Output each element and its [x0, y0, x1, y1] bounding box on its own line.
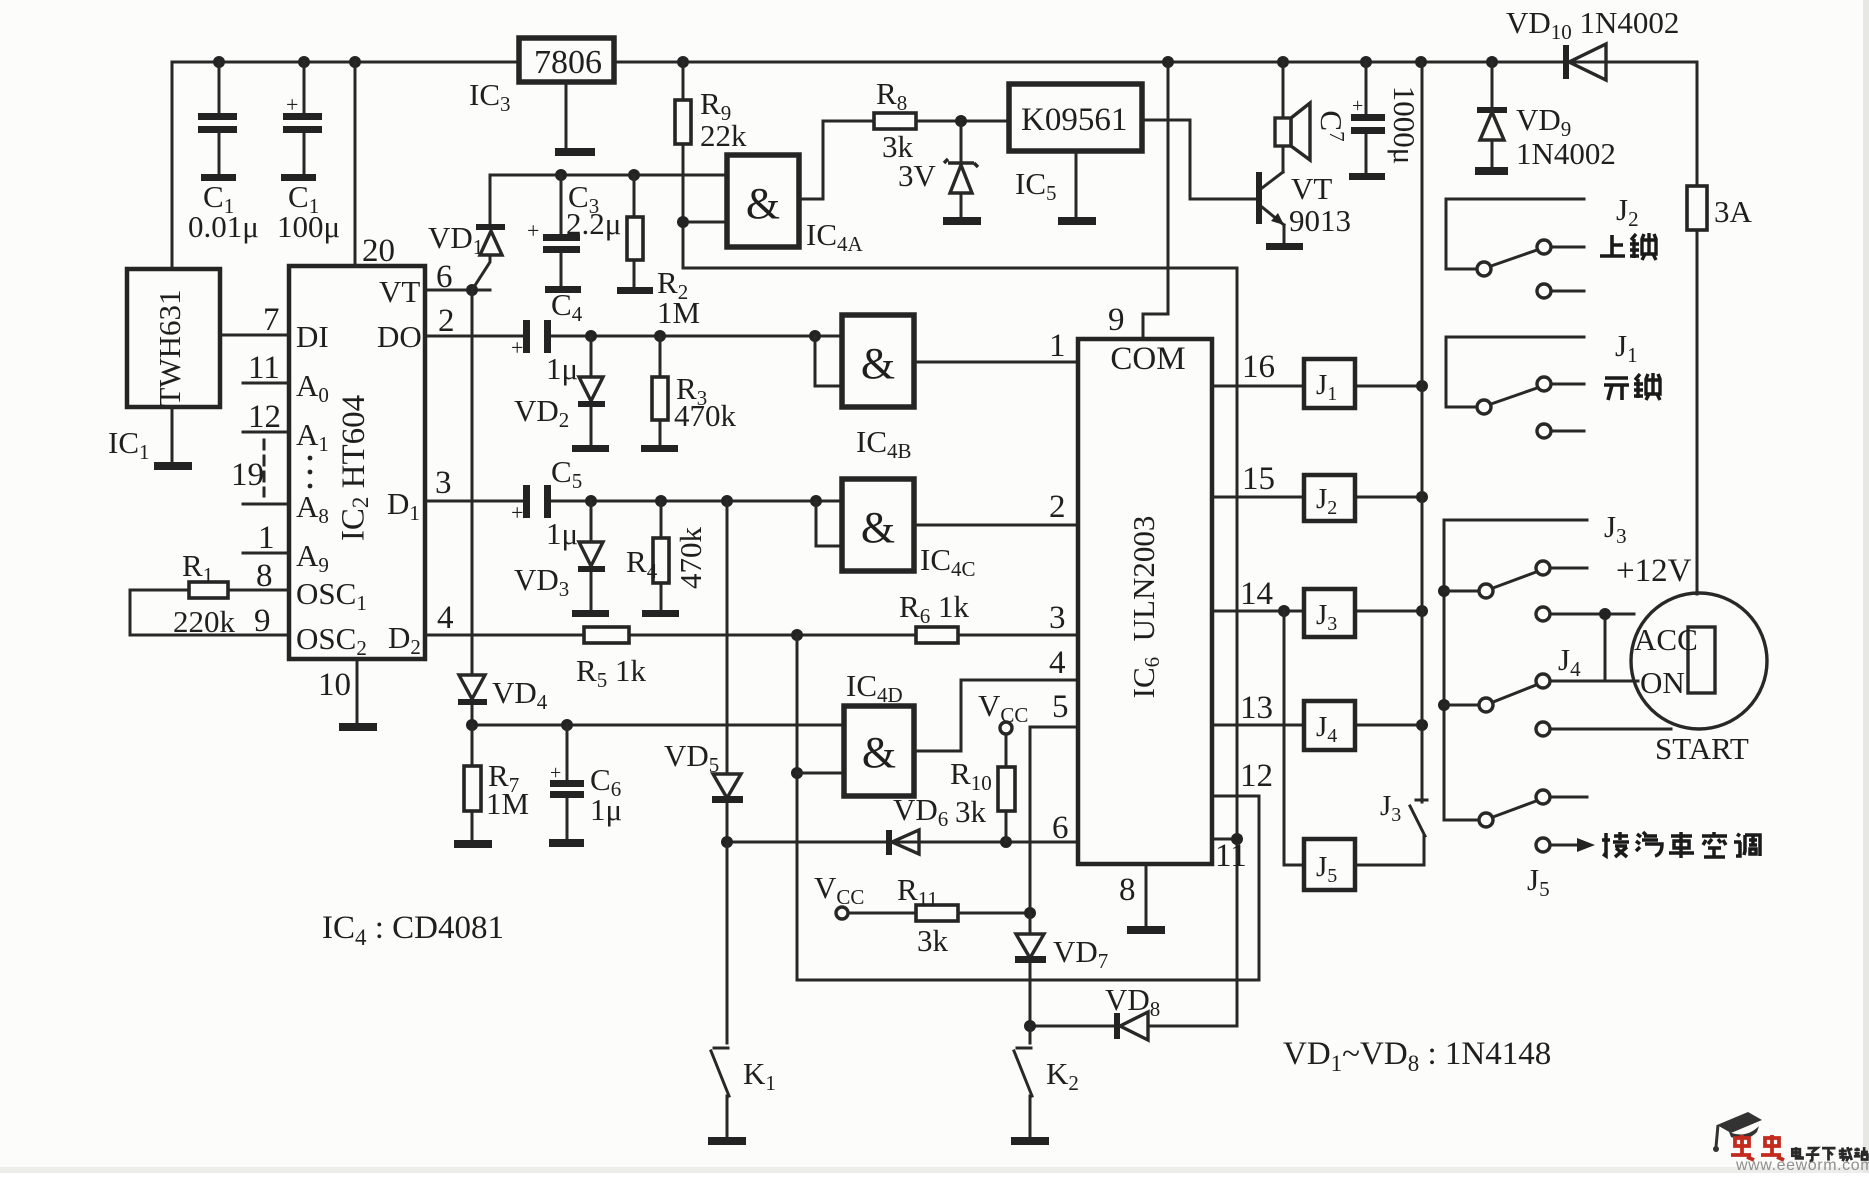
ignition switch START circle — [1631, 593, 1767, 729]
relay J5 with J3 contact — [1284, 611, 1304, 865]
svg-text:IC6 ULN2003: IC6 ULN2003 — [1126, 516, 1164, 699]
svg-text:VCC: VCC — [814, 870, 864, 909]
svg-text:VD8: VD8 — [1105, 982, 1160, 1021]
zener diode 3V — [955, 115, 967, 127]
svg-text:100μ: 100μ — [277, 209, 340, 244]
svg-text:OSC2: OSC2 — [296, 621, 367, 660]
pin 19 A8 stub — [243, 503, 289, 506]
pin 20 wire HT604 to bus — [354, 62, 357, 266]
svg-text:+: + — [527, 218, 539, 243]
diode VD1 — [472, 175, 490, 290]
wire IC4B input B drop — [815, 336, 842, 386]
switch group J4 — [1444, 704, 1479, 707]
svg-text:&: & — [862, 728, 896, 777]
svg-text:470k: 470k — [674, 398, 737, 433]
svg-text:20: 20 — [362, 233, 395, 269]
resistor R3 470k — [659, 336, 662, 445]
capacitor C3 2.2u — [560, 175, 563, 234]
wire DO pin2 line — [425, 335, 842, 338]
switch K1 — [711, 842, 729, 1137]
relay J1 — [1304, 359, 1355, 408]
diode VD2 — [590, 336, 593, 445]
svg-text:VD7: VD7 — [1053, 934, 1108, 973]
ground under TWH631 — [171, 407, 174, 462]
air conditioner terminal with arrow — [1536, 838, 1550, 852]
svg-text:J4: J4 — [1558, 642, 1581, 681]
watermark site name — [1792, 1147, 1868, 1161]
svg-text:11: 11 — [1215, 838, 1247, 874]
svg-text:9: 9 — [1108, 302, 1125, 338]
wire IC4A input B — [683, 221, 727, 224]
wire IC4B output to pin1 — [914, 361, 1078, 364]
svg-text:7: 7 — [263, 302, 280, 338]
svg-text:4: 4 — [437, 600, 454, 636]
diode VD7 — [1029, 913, 1032, 1026]
resistor R4 470k — [660, 501, 663, 610]
svg-text:9013: 9013 — [1289, 203, 1351, 238]
node: bus junction dots — [213, 56, 225, 68]
pin 1 A9 stub — [243, 552, 289, 555]
wire IC4C output to pin2 — [914, 524, 1078, 527]
svg-text:1: 1 — [1049, 328, 1066, 364]
capacitor C1 0.01u — [218, 62, 221, 113]
svg-text:22k: 22k — [700, 118, 747, 153]
svg-text:VD2: VD2 — [514, 393, 569, 432]
svg-text:19: 19 — [231, 457, 264, 493]
svg-text:8: 8 — [1119, 872, 1136, 908]
svg-text:1: 1 — [258, 520, 275, 556]
wire VD4 node to IC4D input A — [472, 724, 844, 727]
diode VD6 on pin6 line — [886, 830, 892, 855]
ground under 7806 — [565, 82, 568, 148]
svg-text:15: 15 — [1242, 461, 1275, 497]
big vertical relay common rail — [1421, 62, 1424, 725]
transistor VT 9013 — [1256, 172, 1262, 224]
svg-text:R10: R10 — [950, 756, 992, 795]
svg-text:5: 5 — [1052, 689, 1069, 725]
capacitor C7 1000u — [1365, 62, 1368, 173]
resistor R9 22k — [682, 62, 685, 268]
IC6 ULN2003 box — [1078, 339, 1212, 864]
svg-text:K09561: K09561 — [1021, 102, 1127, 138]
resistor R2 1M — [633, 175, 636, 287]
svg-text:DO: DO — [377, 319, 422, 354]
ground under IC5 — [1075, 151, 1078, 217]
svg-text:13: 13 — [1240, 690, 1273, 726]
svg-text:IC3: IC3 — [469, 77, 511, 116]
svg-text:START: START — [1655, 731, 1749, 766]
svg-text:IC4D: IC4D — [846, 668, 903, 707]
svg-text:IC4B: IC4B — [856, 424, 912, 463]
svg-text:1μ: 1μ — [546, 516, 578, 551]
fuse 3A — [1696, 62, 1699, 594]
svg-text:470k: 470k — [673, 527, 708, 590]
svg-text:ACC: ACC — [1634, 622, 1698, 657]
svg-text:C5: C5 — [551, 454, 582, 493]
svg-text:DI: DI — [296, 319, 329, 354]
wire: top supply bus left segment — [172, 62, 519, 269]
svg-text:VD1~VD8 : 1N4148: VD1~VD8 : 1N4148 — [1283, 1036, 1551, 1076]
diode VD10 1N4002 on bus — [1563, 45, 1569, 79]
svg-text:J5: J5 — [1527, 862, 1550, 901]
switch group J5 — [1444, 819, 1479, 822]
wire D2 node down to IC4D input B and pin12 return — [797, 635, 1259, 980]
pin 10 ground — [356, 659, 359, 723]
wire pin13 to relay J4 — [1212, 724, 1422, 727]
svg-text:C7: C7 — [1314, 110, 1349, 141]
switch K2 — [1014, 1026, 1032, 1137]
wire IC6 pin6 line — [727, 841, 1078, 844]
speaker — [1282, 62, 1285, 172]
op-amp gate IC4A — [727, 155, 799, 247]
svg-text:3: 3 — [435, 465, 452, 501]
resistor R7 1M — [471, 725, 474, 840]
switch group J3 +12V — [1444, 520, 1587, 820]
svg-text:R8: R8 — [876, 76, 907, 115]
svg-text:3V: 3V — [898, 158, 937, 193]
wire D2 pin4 line with R5 R6 — [425, 634, 1078, 637]
svg-text:IC5: IC5 — [1015, 166, 1057, 205]
resistor R1 220k between OSC1 OSC2 — [130, 590, 289, 635]
gate IC4B — [842, 315, 914, 407]
svg-text:3k: 3k — [917, 923, 949, 958]
svg-text:7806: 7806 — [534, 44, 602, 81]
IC2 HT604 box — [289, 266, 425, 659]
svg-text:2: 2 — [438, 303, 455, 339]
diode VD4 — [471, 290, 474, 725]
wire pin15 to relay J2 — [1212, 496, 1422, 499]
svg-text:+: + — [511, 335, 523, 360]
diode VD8 — [1030, 1025, 1237, 1028]
svg-text:R5 1k: R5 1k — [576, 653, 646, 692]
wire IC4D output to pin4 — [914, 680, 1078, 751]
relay J4 — [1304, 701, 1355, 750]
switch group J1 kaisuo — [1446, 337, 1584, 407]
svg-text:www.eeworm.com: www.eeworm.com — [1735, 1157, 1869, 1173]
svg-text:&: & — [861, 339, 895, 388]
svg-text:VT: VT — [1291, 171, 1332, 206]
svg-text:ON: ON — [1640, 665, 1685, 700]
wire DI pin7 from TWH631 — [220, 334, 289, 337]
diode VD3 — [590, 501, 593, 610]
wire IC4C input B drop — [816, 501, 842, 546]
svg-text:1N4002: 1N4002 — [1516, 136, 1616, 171]
wire pin5 to K2 branch — [1030, 727, 1078, 911]
resistor R6 1k — [916, 627, 958, 643]
watermark graduation cap — [1717, 1112, 1762, 1133]
svg-text:R6 1k: R6 1k — [899, 589, 969, 628]
wire IC4A output to R8 — [799, 121, 874, 199]
pin 8 ground — [1145, 864, 1148, 926]
relay J2 — [1304, 475, 1355, 521]
svg-text:IC4A: IC4A — [806, 217, 864, 256]
switch group J2 shangsuo — [1446, 199, 1584, 269]
wire bus to ULN2003 COM pin9 — [1143, 62, 1168, 339]
capacitor C4 1u — [523, 320, 530, 353]
svg-text:3A: 3A — [1714, 194, 1753, 229]
wire VD1/C3/R2 node line to IC4A input A — [490, 174, 727, 177]
capacitor C1 100u electrolytic — [303, 62, 306, 113]
wire: top supply bus right segment — [614, 61, 1697, 64]
svg-text:K2: K2 — [1046, 1056, 1079, 1095]
svg-text:1μ: 1μ — [590, 792, 622, 827]
capacitor C6 1u — [566, 725, 569, 839]
svg-text:&: & — [746, 179, 780, 228]
svg-text:+12V: +12V — [1616, 553, 1692, 589]
watermark chongchong red — [1731, 1135, 1754, 1160]
diode VD9 1N4002 — [1491, 62, 1494, 167]
svg-text:1μ: 1μ — [546, 351, 578, 386]
svg-text:12: 12 — [1240, 758, 1273, 794]
svg-text:6: 6 — [1052, 810, 1069, 846]
wire K09561 output to VT base — [1142, 120, 1256, 199]
gate IC4C — [842, 479, 914, 571]
svg-text:1M: 1M — [657, 295, 700, 330]
svg-text:12: 12 — [248, 399, 281, 435]
svg-text:VD1: VD1 — [428, 220, 483, 259]
svg-text:R11: R11 — [897, 872, 938, 911]
svg-text:2.2μ: 2.2μ — [566, 206, 621, 241]
svg-text:J1: J1 — [1615, 328, 1638, 367]
svg-text:4: 4 — [1049, 645, 1066, 681]
svg-text:VD10 1N4002: VD10 1N4002 — [1506, 5, 1679, 44]
pin 11 A0 stub — [243, 382, 289, 385]
svg-text:VD5: VD5 — [664, 738, 719, 777]
svg-text:VD3: VD3 — [514, 562, 569, 601]
svg-text:IC4 : CD4081: IC4 : CD4081 — [322, 910, 504, 950]
svg-text:1000μ: 1000μ — [1387, 86, 1422, 165]
wire R9 net to pin11 and VD8 — [683, 268, 1237, 1026]
svg-text:OSC1: OSC1 — [296, 576, 367, 615]
IC1 TWH631 box — [127, 269, 220, 407]
wire pin14 to relay J3 — [1212, 610, 1422, 613]
gate IC4D — [844, 706, 914, 796]
IC3 7806 regulator — [519, 38, 614, 82]
svg-text:+: + — [1352, 95, 1363, 117]
svg-text:1M: 1M — [486, 786, 529, 821]
svg-text:IC1: IC1 — [108, 425, 150, 464]
wire D1 pin3 line — [425, 500, 842, 503]
svg-text:10: 10 — [318, 667, 351, 703]
svg-text:J2: J2 — [1616, 192, 1639, 231]
svg-text:14: 14 — [1240, 576, 1273, 612]
wire pin16 to relay J1 — [1212, 385, 1422, 388]
svg-text:IC2 HT604: IC2 HT604 — [336, 395, 374, 541]
resistor R8 3k — [874, 113, 916, 129]
START contact wire — [1536, 722, 1550, 736]
contact J3 in series — [1355, 725, 1427, 865]
capacitor C5 1u — [523, 485, 530, 518]
svg-text:VD4: VD4 — [492, 675, 548, 714]
svg-text:TWH631: TWH631 — [152, 289, 187, 406]
diode VD5 — [726, 501, 729, 842]
svg-text:11: 11 — [248, 350, 280, 386]
svg-text:IC4C: IC4C — [920, 542, 976, 581]
svg-text:3: 3 — [1049, 600, 1066, 636]
scan edge shading — [0, 1167, 1869, 1173]
svg-text:2: 2 — [1049, 489, 1066, 525]
ACC contact wire — [1536, 607, 1550, 621]
svg-text:0.01μ: 0.01μ — [188, 209, 259, 244]
svg-text:+: + — [550, 762, 561, 784]
pin 12 A1 stub — [243, 431, 289, 434]
svg-text:+: + — [511, 500, 523, 525]
svg-text:&: & — [861, 503, 895, 552]
svg-text:J3: J3 — [1380, 790, 1401, 826]
resistor R5 1k — [584, 627, 629, 643]
dashed continuation A1..A8 — [263, 440, 266, 496]
svg-text:16: 16 — [1242, 349, 1275, 385]
svg-text:J3: J3 — [1604, 509, 1627, 548]
svg-text:VT: VT — [379, 274, 420, 309]
svg-text:3k: 3k — [955, 794, 987, 829]
IC5 K09561 box — [1009, 84, 1142, 151]
svg-text:220k: 220k — [173, 604, 236, 639]
svg-text:R1: R1 — [182, 548, 213, 587]
relay J3 — [1304, 589, 1355, 637]
svg-text:COM: COM — [1110, 341, 1185, 377]
wire VT pin6 stub — [425, 289, 490, 292]
svg-text:K1: K1 — [743, 1056, 776, 1095]
